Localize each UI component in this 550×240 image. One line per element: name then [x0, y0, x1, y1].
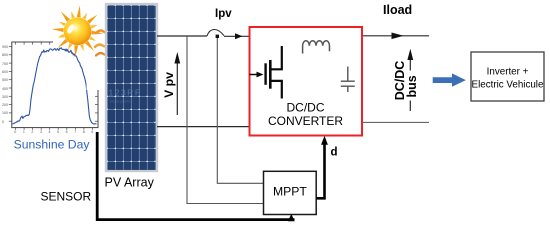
- svg-text:800: 800: [2, 53, 8, 57]
- svg-text:123RF: 123RF: [109, 88, 142, 98]
- svg-text:Sunshine Day: Sunshine Day: [14, 138, 91, 152]
- svg-text:100: 100: [2, 111, 8, 115]
- svg-text:1: 1: [23, 130, 25, 134]
- svg-text:CONVERTER: CONVERTER: [268, 114, 343, 128]
- svg-text:400: 400: [2, 87, 8, 91]
- svg-text:0: 0: [2, 120, 4, 124]
- svg-text:MPPT: MPPT: [273, 184, 307, 198]
- svg-text:200: 200: [2, 103, 8, 107]
- svg-text:d: d: [331, 147, 338, 159]
- svg-text:2: 2: [31, 130, 33, 134]
- svg-text:700: 700: [2, 62, 8, 66]
- svg-text:stock photo: stock photo: [110, 99, 131, 104]
- svg-text:6: 6: [66, 130, 68, 134]
- svg-text:Iload: Iload: [383, 3, 412, 17]
- svg-text:V pv: V pv: [162, 72, 176, 98]
- svg-text:3: 3: [40, 130, 42, 134]
- svg-text:0: 0: [14, 130, 16, 134]
- svg-text:900: 900: [2, 45, 8, 49]
- svg-text:SENSOR: SENSOR: [41, 190, 92, 204]
- svg-text:5: 5: [57, 130, 59, 134]
- svg-text:Ipv: Ipv: [215, 8, 232, 20]
- svg-text:4: 4: [49, 130, 51, 134]
- svg-text:7: 7: [74, 130, 76, 134]
- svg-text:PV Array: PV Array: [105, 176, 155, 190]
- svg-text:500: 500: [2, 78, 8, 82]
- svg-text:600: 600: [2, 70, 8, 74]
- svg-text:Inverter +: Inverter +: [487, 67, 529, 78]
- svg-text:8: 8: [83, 130, 85, 134]
- svg-text:9: 9: [91, 130, 93, 134]
- svg-text:DC/DC: DC/DC: [287, 101, 325, 115]
- svg-text:bus: bus: [405, 75, 419, 97]
- svg-text:Electric Vehicule: Electric Vehicule: [472, 80, 544, 91]
- svg-text:300: 300: [2, 95, 8, 99]
